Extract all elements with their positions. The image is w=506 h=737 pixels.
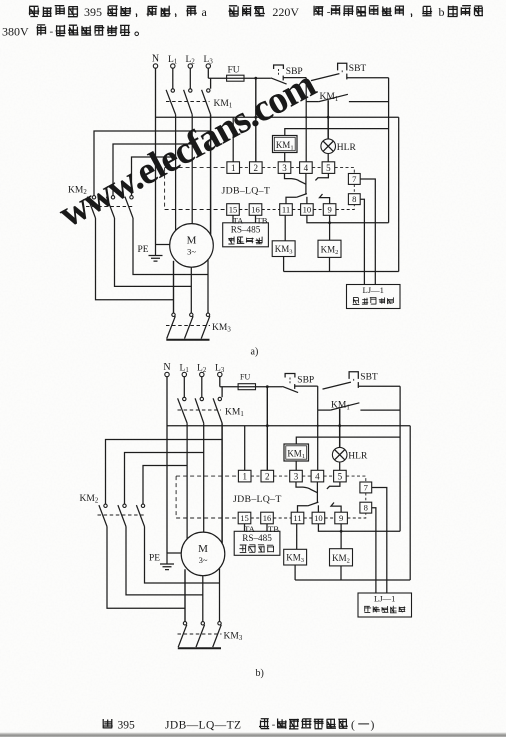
node junction on N rail (circuit a) (254, 116, 257, 119)
node KM1 aux to drop (circuit b) (317, 425, 319, 427)
relay contact box9 hook (circuit b) (331, 503, 341, 513)
paragraph line 1 (29, 6, 39, 16)
terminal box 7 (circuit b) (360, 482, 372, 493)
terminal box 16 (circuit a) (249, 204, 262, 216)
KM2 linkage dashed (circuit a) (86, 206, 134, 208)
wire motor lead W2 (circuit a) (207, 260, 209, 313)
dashed terminal row 2 (circuit a) (165, 209, 227, 211)
wire junction node (circuit b) (317, 386, 319, 410)
fuse FU (circuit b) (238, 384, 255, 390)
wire HLR drop (circuit b) (339, 409, 341, 448)
KM1 linkage dashed (circuit b) (178, 409, 222, 411)
wire HLR drop (circuit a) (327, 100, 329, 139)
contactor KM3 star contacts (circuit b) (183, 622, 186, 625)
wire N rail horizontal (circuit a) (156, 116, 399, 118)
terminal L2 (circuit a) (188, 64, 192, 68)
terminal N (circuit b) (165, 372, 169, 376)
coil KM1 (circuit b) (284, 444, 309, 461)
wire SBT to right rail (circuit a) (347, 77, 389, 79)
KM3 linkage dashed (circuit a) (166, 325, 210, 327)
KM2 linkage dashed (circuit b) (98, 514, 146, 516)
relay contact to box10 (circuit b) (298, 506, 308, 512)
wire KM2 out 3 (circuit b) (145, 527, 220, 584)
wire N rail horizontal (circuit b) (167, 425, 410, 427)
terminal L1 (circuit b) (182, 372, 186, 376)
wire KM3 coil return (circuit a) (283, 257, 285, 272)
terminal box 8 (circuit b) (360, 502, 372, 513)
wire L3 down, branch to fuse (circuit a) (207, 68, 209, 78)
relay contact box5 hook (circuit a) (315, 173, 328, 180)
wire N rail to box1 (circuit a) (232, 117, 234, 162)
wire SBP to junction (circuit b) (295, 385, 318, 387)
terminal box 10 (circuit a) (301, 204, 314, 216)
relay contact box3-box4 (circuit b) (296, 482, 303, 487)
wire L3 branch to fuse (circuit b) (220, 386, 283, 388)
wire L1 to motor (circuit b) (186, 466, 188, 540)
box RS-485 interface (circuit b) (234, 531, 280, 555)
coil KM3 (circuit a) (272, 241, 295, 257)
dashed terminal row 1 (circuit b) (176, 475, 238, 477)
lamp HLR (circuit a) (321, 139, 336, 154)
wire box15 to RS485 (circuit b) (244, 524, 246, 532)
fuse FU (circuit a) (227, 75, 244, 81)
node control feed junction (circuit a) (254, 77, 257, 80)
box LJ-1 zero-sequence CT (circuit b) (358, 593, 412, 617)
relay contact box3-box4 (circuit a) (285, 173, 292, 178)
wire L3 top segment (circuit b) (221, 387, 223, 397)
wire KM2 out 1 (circuit a) (96, 218, 174, 300)
node KM1 aux to drop (circuit a) (305, 116, 307, 118)
wire right rail R1 (circuit a) (388, 78, 390, 223)
contactor KM1 main contacts (circuit a) (171, 89, 174, 92)
wire box16 to RS485 (circuit b) (266, 524, 268, 532)
wire SBP to junction (circuit a) (283, 77, 306, 79)
terminal L1 (circuit a) (171, 64, 175, 68)
ground PE (circuit a) (155, 245, 157, 256)
wire control feed down to box 2 (circuit a) (255, 78, 257, 162)
bottom scan edge band (0, 733, 506, 737)
wire KM2 out 1 (circuit b) (107, 527, 185, 609)
wire box4 lead down (circuit a) (305, 173, 307, 193)
wire KM2 out 2 (circuit b) (126, 527, 203, 595)
wire N rail to box1 (circuit b) (244, 426, 246, 471)
dashed terminal row 1 (circuit a) (165, 167, 227, 169)
node coil bus (circuit a) (328, 221, 331, 224)
wire junction node (circuit a) (305, 78, 307, 102)
wire junction to box4 (circuit a) (305, 102, 307, 162)
terminal box 11 (circuit b) (291, 512, 304, 524)
coil KM2 (circuit a) (318, 240, 341, 257)
dashed between 7 and 8 (circuit b) (365, 493, 367, 502)
wire box16 to RS485 (circuit a) (255, 215, 257, 223)
terminal box 7 (circuit a) (348, 174, 360, 185)
KM3 linkage dashed (circuit b) (178, 633, 222, 635)
wire HLR to box5 (circuit a) (327, 154, 329, 162)
pushbutton SBT (NO start) (circuit b) (323, 382, 351, 389)
wire coil return rail (circuit b) (295, 579, 410, 581)
box LJ-1 zero-sequence CT (circuit a) (347, 285, 401, 309)
caption (103, 719, 113, 728)
star point bus bar (circuit a) (166, 339, 209, 341)
contact KM1 auxiliary (circuit b) (318, 409, 331, 411)
wire SBT to right rail (circuit b) (358, 385, 400, 387)
terminal L3 (circuit b) (218, 372, 222, 376)
wire L2 phase below KM1 (circuit a) (191, 115, 193, 144)
terminal box 4 (circuit a) (300, 162, 313, 174)
box RS-485 interface (circuit a) (223, 223, 269, 247)
wire KM2 tap phase3 (circuit a) (94, 131, 211, 196)
wire L1 to motor (circuit a) (175, 157, 177, 231)
wire box9 to KM2 coil (circuit b) (340, 524, 342, 549)
wire box7 to LJ-1 (circuit b) (372, 488, 387, 594)
wire PE to motor (circuit a) (156, 244, 170, 246)
node HLR drop x N rail (circuit a) (327, 116, 330, 119)
terminal box 5 (circuit a) (322, 162, 335, 174)
wire box11 to KM3 coil (circuit a) (284, 215, 286, 241)
wire L2 phase below KM1 (circuit b) (203, 423, 205, 452)
wire box10 down, bus to rail (circuit a) (307, 215, 389, 223)
wire KM2 tap phase2 (circuit a) (113, 144, 192, 196)
coil KM3 (circuit b) (284, 549, 307, 565)
ground PE (circuit b) (166, 553, 168, 564)
wire control feed down to box 2 (circuit b) (266, 387, 268, 471)
dashed between 7 and 8 (circuit a) (353, 184, 355, 193)
wire right rail R2 (circuit b) (409, 426, 411, 580)
coil KM2 (circuit b) (330, 549, 353, 566)
terminal box 1 (circuit a) (227, 162, 240, 174)
wire KM1 coil to box3 (circuit b) (295, 461, 297, 470)
wire right rail R1 (circuit b) (399, 386, 401, 531)
relay contact to box10 (circuit a) (286, 197, 296, 203)
wire L3 branch to fuse (circuit a) (208, 77, 271, 79)
contactor KM2 contacts (circuit a) (92, 196, 95, 199)
wire L1 down (circuit b) (183, 377, 185, 398)
wire motor lead U2 (circuit a) (173, 261, 175, 313)
pushbutton SBP (NC stop) (circuit b) (285, 374, 295, 378)
terminal box 16 (circuit b) (261, 512, 274, 524)
terminal box 5 (circuit b) (334, 470, 347, 482)
terminal box 8 (circuit a) (348, 194, 360, 205)
terminal box 15 (circuit b) (238, 512, 251, 524)
terminal box 2 (circuit b) (261, 470, 274, 482)
wire right rail R2 (circuit a) (398, 117, 400, 271)
lamp HLR (circuit b) (332, 447, 347, 462)
wire L3 down, branch to fuse (circuit b) (219, 377, 221, 387)
watermark www.elecfans.com (52, 62, 323, 236)
pushbutton SBT (NO start) (circuit a) (311, 74, 339, 81)
KM1 linkage dashed (circuit a) (166, 101, 210, 103)
terminal box 2 (circuit a) (250, 162, 263, 174)
wire coil return rail (circuit a) (284, 271, 399, 273)
dashed CT link vertical (circuit b) (175, 476, 177, 518)
terminal box 9 (circuit b) (335, 512, 348, 524)
node control feed junction (circuit b) (266, 385, 269, 388)
wire L2 down (circuit b) (201, 377, 203, 398)
wire KM1 coil feed (circuit a) (285, 129, 389, 136)
terminal box 3 (circuit b) (290, 470, 303, 482)
terminal N (circuit a) (153, 64, 157, 68)
wire KM1 coil to box3 (circuit a) (284, 153, 286, 162)
contactor KM3 star contacts (circuit a) (172, 313, 175, 316)
contact KM1 auxiliary (circuit a) (306, 101, 319, 103)
wire KM2 out 3 (circuit a) (133, 218, 208, 275)
terminal box 15 (circuit a) (227, 204, 240, 216)
pushbutton SBP (NC stop) (circuit a) (274, 65, 284, 69)
wire KM2 tap phase2 (circuit b) (125, 453, 204, 505)
wire KM2 out 2 (circuit a) (115, 218, 192, 286)
wire L1 phase below KM1 (circuit b) (186, 423, 188, 465)
terminal L2 (circuit b) (200, 372, 204, 376)
wire box8 to LJ-1 (circuit b) (372, 508, 376, 593)
terminal box 3 (circuit a) (278, 162, 291, 174)
wire KM2 coil return (circuit a) (329, 257, 331, 271)
wire L3 top segment (circuit a) (210, 78, 212, 88)
wire motor lead V2 (circuit b) (202, 576, 204, 622)
terminal L3 (circuit a) (206, 64, 210, 68)
wire KM2 tap phase1 (circuit b) (143, 466, 187, 505)
wire motor lead V2 (circuit a) (190, 267, 192, 313)
wire L2 to motor (circuit a) (191, 144, 193, 224)
wire KM2 coil return (circuit b) (340, 566, 342, 580)
node HLR drop x N rail (circuit b) (338, 424, 341, 427)
relay contact box9 hook (circuit a) (320, 194, 330, 204)
wire KM3 coil return (circuit b) (294, 565, 296, 580)
wire L2 to motor (circuit b) (203, 453, 205, 533)
terminal box 4 (circuit b) (311, 470, 324, 482)
contactor KM2 contacts (circuit b) (104, 504, 107, 507)
wire HLR to box5 (circuit b) (339, 462, 341, 470)
wire motor lead W2 (circuit b) (219, 568, 221, 621)
coil KM1 (circuit a) (273, 136, 298, 153)
star point bus bar (circuit b) (178, 647, 221, 649)
wire junction to box4 (circuit b) (317, 410, 319, 470)
motor M 3-phase (circuit a) (170, 224, 214, 268)
wire box10 down, bus to rail (circuit b) (318, 524, 400, 532)
wire L1 down (circuit a) (172, 68, 174, 89)
wire box4 lead down (circuit b) (316, 482, 318, 502)
contactor KM1 main contacts (circuit b) (183, 397, 186, 400)
wire N vertical down to PE junction (circuit b) (166, 377, 168, 553)
wire box11 to KM3 coil (circuit b) (296, 524, 298, 550)
wire box9 to KM2 coil (circuit a) (329, 215, 331, 240)
dashed CT link vertical (circuit a) (164, 168, 166, 210)
node coil bus (circuit b) (340, 530, 343, 533)
terminal box 11 (circuit a) (280, 204, 293, 216)
node junction on N rail (circuit b) (266, 424, 269, 427)
wire L2 down (circuit a) (189, 68, 191, 89)
wire L3 phase below KM1 to motor (circuit a) (210, 115, 212, 235)
wire KM2 tap phase3 (circuit b) (106, 440, 223, 505)
wire N vertical down to PE junction (circuit a) (155, 68, 157, 244)
dashed terminal row 2 (circuit b) (176, 517, 238, 519)
terminal box 10 (circuit b) (312, 512, 325, 524)
motor M 3-phase (circuit b) (181, 532, 225, 576)
terminal box 9 (circuit a) (323, 204, 336, 216)
wire KM1 coil feed (circuit b) (296, 437, 400, 444)
wire KM2 tap phase1 (circuit a) (132, 157, 176, 196)
wire motor lead U2 (circuit b) (184, 569, 186, 621)
terminal box 1 (circuit b) (238, 470, 251, 482)
wire PE to motor (circuit b) (167, 552, 181, 554)
wire box7 to LJ-1 (circuit a) (360, 179, 375, 285)
relay contact box5 hook (circuit b) (327, 482, 340, 489)
wire box15 to RS485 (circuit a) (232, 215, 234, 223)
wire L3 phase below KM1 to motor (circuit b) (221, 423, 223, 543)
wire box8 to LJ-1 (circuit a) (360, 199, 364, 284)
wire L1 phase below KM1 (circuit a) (175, 115, 177, 157)
